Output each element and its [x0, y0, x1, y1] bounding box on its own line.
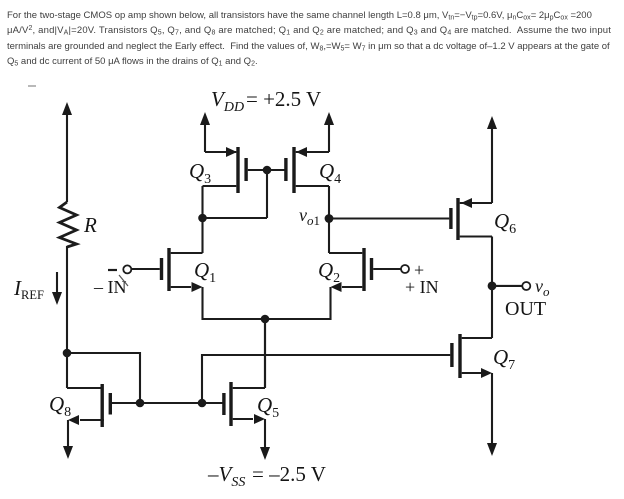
wire Q2 source to tail	[265, 287, 331, 319]
transistor Q5	[222, 382, 265, 426]
node A (IREF / Q8 drain-gate tie)	[63, 349, 72, 358]
svg-text:Q8: Q8	[49, 392, 71, 420]
transistor Q4	[284, 147, 329, 193]
transistor Q8	[67, 384, 140, 427]
svg-text:– IN: – IN	[93, 277, 127, 297]
svg-text:+ IN: + IN	[405, 277, 439, 297]
tail node	[261, 315, 270, 324]
VDD arrow above Q3	[200, 112, 210, 152]
svg-text:VDD: VDD	[211, 87, 244, 115]
svg-text:Q3: Q3	[189, 159, 211, 187]
wire Q1 source to tail	[203, 287, 266, 319]
svg-text:Q1: Q1	[194, 258, 216, 286]
vo label	[535, 276, 550, 299]
svg-text:Q2: Q2	[318, 258, 340, 286]
wire left rail resistor to node	[66, 246, 68, 353]
node Q3 drain/gate tie	[198, 214, 207, 223]
svg-text:= +2.5 V: = +2.5 V	[246, 87, 321, 111]
svg-text:vo1: vo1	[299, 205, 320, 228]
wire Q4 drain down to vo1	[328, 186, 330, 219]
gate bias wire Q8-Q5	[140, 402, 223, 404]
+IN label	[405, 277, 439, 297]
node gate-mid	[198, 399, 207, 408]
svg-text:–VSS: –VSS	[207, 462, 245, 490]
transistor Q2	[329, 248, 401, 292]
resistor R	[60, 202, 77, 247]
svg-text:R: R	[83, 213, 97, 237]
svg-text:OUT: OUT	[505, 298, 546, 320]
transistor Q3	[203, 147, 268, 193]
IREF arrow	[52, 272, 62, 305]
VSS label	[207, 462, 326, 490]
VSS arrow under Q8	[63, 420, 73, 459]
wire gate line to Q7 gate	[202, 355, 450, 403]
svg-text:= –2.5 V: = –2.5 V	[252, 462, 326, 486]
vo terminal	[522, 282, 530, 290]
node gate-left	[136, 399, 145, 408]
svg-text:IREF: IREF	[13, 276, 44, 302]
wire Q3 drain down	[201, 186, 203, 218]
wire vo1 to Q6 gate	[329, 217, 449, 219]
wire Q1 drain up	[201, 218, 203, 253]
transistor Q6	[449, 198, 492, 240]
VSS arrow under Q7	[487, 373, 497, 456]
-IN terminal	[108, 265, 131, 273]
VDD arrow right rail	[487, 116, 497, 203]
vo1 label	[299, 205, 320, 228]
wire diode connection	[203, 217, 268, 219]
vo node	[488, 282, 497, 291]
vo1 node	[325, 214, 334, 223]
VDD label	[211, 87, 321, 115]
+IN terminal	[401, 260, 424, 280]
svg-text:Q4: Q4	[319, 159, 341, 187]
transistor Q1	[132, 248, 203, 292]
wire Q6 drain down to vo	[491, 237, 493, 286]
VSS arrow under Q5	[260, 419, 270, 460]
wire node A down to Q8 drain	[66, 353, 68, 388]
svg-text:Q7: Q7	[493, 345, 515, 373]
wire gate node down	[266, 170, 268, 218]
IREF label	[13, 276, 44, 302]
node Q3/Q4 gates	[263, 166, 272, 175]
wire vo to terminal	[492, 285, 522, 287]
-IN label	[93, 277, 127, 297]
wire Q5 drain up to tail	[264, 319, 266, 388]
wire node A to gate branch	[67, 353, 140, 403]
wire vo down to Q7 drain	[491, 286, 493, 338]
VDD arrow above Q4	[324, 112, 334, 152]
wire gate node to Q4	[267, 169, 286, 171]
stray dash artifact	[28, 85, 36, 87]
stray mark on N	[119, 275, 128, 286]
svg-text:Q6: Q6	[494, 209, 516, 237]
transistor Q7	[450, 334, 492, 378]
wire tail down to Q5	[264, 319, 266, 388]
wire Q2 drain up to vo1	[328, 219, 330, 254]
svg-text:vo: vo	[535, 276, 550, 299]
svg-text:Q5: Q5	[257, 393, 279, 421]
VDD arrow left rail	[62, 102, 72, 202]
